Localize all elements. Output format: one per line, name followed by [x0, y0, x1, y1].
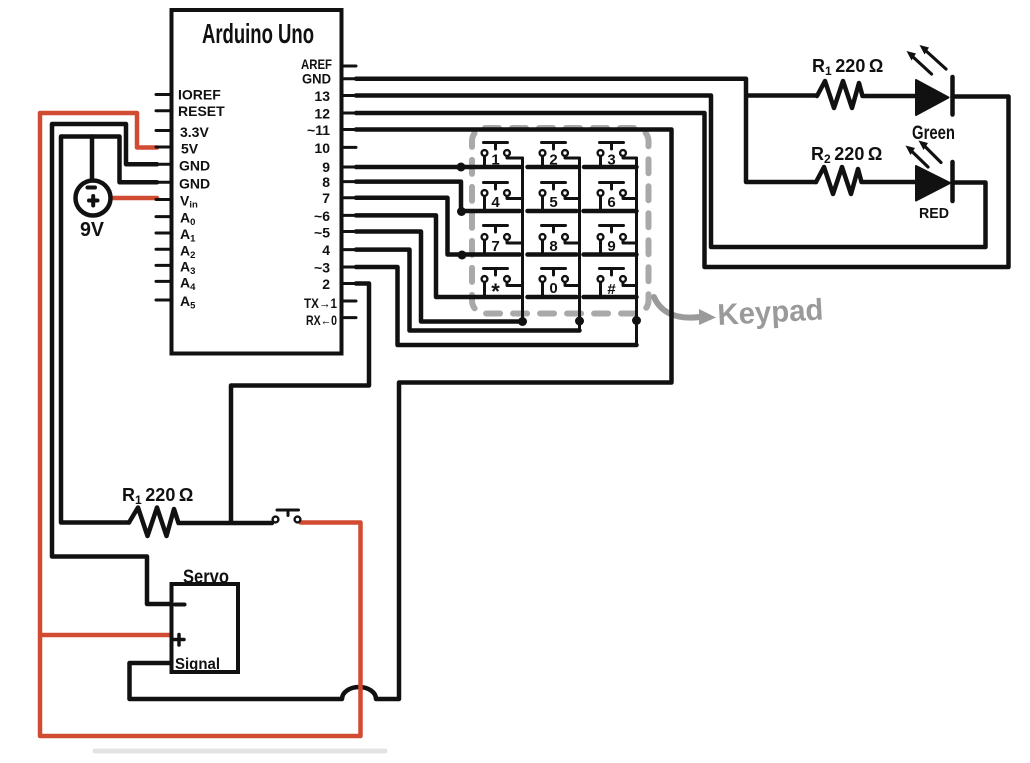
junction dot column 2	[575, 317, 584, 326]
keypad button 0	[540, 269, 580, 298]
pin 13	[314, 88, 356, 104]
pin ~3	[314, 260, 356, 276]
wire GND pin 1 to servo -	[52, 124, 172, 604]
wire pin ~3 to keypad column 3	[356, 267, 637, 345]
resistor R1 220ohm top	[817, 81, 916, 108]
junction dot row 3	[458, 251, 467, 260]
pin A0	[156, 210, 195, 229]
wire pin ~5 to keypad column 1	[356, 232, 523, 322]
svg-text:Keypad: Keypad	[717, 293, 825, 332]
wire pin 7 keypad row 3	[356, 198, 637, 255]
keypad column 3 wire	[635, 158, 638, 345]
pin ~5	[314, 225, 356, 241]
svg-text:4: 4	[322, 242, 330, 258]
svg-text:12: 12	[314, 106, 330, 122]
servo pin plus	[174, 635, 184, 646]
svg-text:6: 6	[607, 194, 615, 211]
svg-text:~3: ~3	[314, 260, 330, 276]
pin GND right	[302, 71, 356, 87]
pin IOREF	[156, 87, 221, 103]
wire pin ~6 keypad row 4	[356, 215, 637, 297]
svg-text:RED: RED	[919, 205, 949, 222]
wire battery - stem	[90, 137, 95, 181]
keypad button 9	[598, 226, 637, 256]
svg-text:3: 3	[607, 152, 615, 169]
svg-text:~11: ~11	[307, 122, 330, 138]
keypad button 2	[540, 143, 580, 169]
pin 12	[314, 106, 356, 122]
wire GND pin 2 to resistor R1 bottom	[61, 137, 157, 523]
servo box	[172, 584, 239, 672]
pin 8	[322, 174, 356, 190]
LED green D1	[907, 45, 953, 115]
svg-text:GND: GND	[302, 71, 331, 87]
svg-text:*: *	[491, 279, 500, 304]
servo pin minus	[175, 603, 185, 607]
wire pin 2 to button junction	[231, 284, 369, 522]
battery 9V source	[76, 181, 111, 216]
keypad column 2 wire	[578, 158, 581, 331]
pin 4	[322, 242, 356, 258]
svg-text:R1 220 Ω: R1 220 Ω	[812, 56, 883, 78]
Arduino Uno U1 box	[172, 10, 342, 354]
svg-text:GND: GND	[179, 158, 210, 174]
faint pencil smudge bottom	[95, 749, 385, 754]
junction dot row 2	[457, 207, 466, 216]
svg-text:8: 8	[322, 174, 330, 190]
junction dot column 1	[518, 317, 527, 326]
wire pin 4 to keypad column 2	[356, 250, 580, 331]
svg-text:7: 7	[491, 238, 499, 255]
pin 10	[314, 140, 356, 156]
keypad button 1	[482, 143, 523, 169]
pin Vin	[156, 193, 198, 211]
svg-text:4: 4	[491, 194, 500, 211]
keypad column 1 wire	[521, 158, 524, 322]
keypad button 8	[540, 226, 580, 256]
svg-text:7: 7	[322, 190, 330, 206]
pin 5V	[156, 141, 199, 157]
svg-text:0: 0	[549, 280, 557, 297]
pin RX-0	[306, 312, 356, 328]
keypad button 7	[482, 226, 523, 256]
keypad callout arrow	[654, 297, 700, 318]
wire red battery + to Vin	[111, 196, 157, 201]
pin 3.3V	[156, 124, 209, 140]
keypad button 6	[598, 183, 637, 212]
svg-text:5: 5	[549, 194, 557, 211]
svg-text:Arduino Uno: Arduino Uno	[202, 18, 314, 49]
svg-text:RESET: RESET	[178, 103, 225, 119]
svg-text:R2 220 Ω: R2 220 Ω	[811, 144, 882, 166]
keypad button hash	[598, 269, 637, 299]
svg-text:#: #	[607, 281, 616, 298]
svg-text:IOREF: IOREF	[178, 87, 221, 103]
pin TX-1	[304, 295, 356, 311]
pin A4	[156, 275, 196, 294]
svg-text:8: 8	[549, 238, 557, 255]
resistor R1 220ohm bottom	[129, 508, 272, 537]
svg-text:1: 1	[491, 152, 499, 169]
svg-text:RX←0: RX←0	[306, 312, 337, 328]
pin 7	[322, 190, 356, 206]
keypad button 4	[482, 183, 523, 212]
svg-text:~5: ~5	[314, 225, 330, 241]
pin RESET	[156, 103, 225, 119]
svg-text:5V: 5V	[181, 141, 199, 157]
svg-text:13: 13	[314, 88, 330, 104]
wire red 5V rail to pushbutton and servo +	[40, 113, 361, 736]
wire pin 12 to green LED cathode	[356, 97, 1009, 268]
junction dot column 3	[632, 316, 641, 325]
pin A2	[156, 243, 195, 262]
svg-text:9: 9	[322, 159, 330, 175]
junction dot row 1	[457, 163, 466, 172]
wire pin 8 keypad row 2	[356, 182, 637, 211]
svg-text:~6: ~6	[314, 208, 330, 224]
pushbutton S1	[273, 510, 301, 522]
svg-text:R1 220 Ω: R1 220 Ω	[122, 485, 193, 507]
pin A5	[156, 293, 196, 312]
wire pin ~11 to servo signal	[130, 130, 672, 700]
LED red D2	[906, 141, 953, 202]
svg-text:Green: Green	[912, 123, 955, 144]
svg-text:9: 9	[607, 238, 615, 255]
pin 9	[322, 159, 356, 175]
keypad button 3	[598, 143, 637, 169]
pin GND left 2	[156, 176, 210, 192]
keypad dashed boundary	[472, 128, 649, 314]
pin GND left 1	[156, 158, 210, 174]
svg-text:9V: 9V	[80, 219, 105, 241]
svg-text:Servo: Servo	[183, 567, 229, 588]
svg-text:2: 2	[549, 152, 557, 169]
pin 2	[322, 276, 356, 292]
svg-text:TX→1: TX→1	[304, 295, 337, 311]
wire GND pin to R1/R2 feeds	[356, 79, 817, 182]
wire pin 9 keypad row 1	[356, 165, 637, 170]
svg-text:GND: GND	[179, 176, 210, 192]
keypad button 5	[540, 183, 580, 212]
pin AREF	[301, 56, 356, 72]
resistor R2 220ohm	[816, 167, 916, 194]
pin ~6	[314, 208, 356, 224]
pin A1	[156, 226, 196, 245]
svg-text:2: 2	[322, 276, 330, 292]
pin A3	[156, 259, 195, 278]
pin ~11	[307, 122, 356, 138]
svg-text:10: 10	[314, 140, 330, 156]
svg-text:3.3V: 3.3V	[180, 124, 209, 140]
wire pin 13 to red LED cathode	[356, 96, 986, 248]
keypad button star	[482, 269, 523, 305]
svg-text:Signal: Signal	[175, 656, 220, 673]
